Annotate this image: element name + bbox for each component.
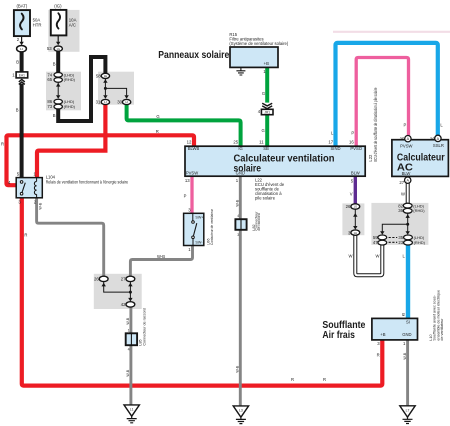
connector ovals 82 36 <box>398 203 425 213</box>
svg-text:W-B: W-B <box>403 352 407 360</box>
svg-text:W: W <box>348 254 352 259</box>
svg-text:65: 65 <box>47 77 52 82</box>
svg-text:1H: 1H <box>354 231 358 235</box>
connector ovals 86 73 <box>47 99 75 109</box>
svg-text:L1: L1 <box>130 408 134 412</box>
red wire left vertical down to relay pin 4 <box>7 136 17 185</box>
gray panel behind connectors 74/65/86/73 <box>46 72 81 111</box>
svg-text:11: 11 <box>259 140 264 145</box>
svg-text:13: 13 <box>185 178 190 183</box>
junction tree below connector 58 <box>103 79 129 99</box>
svg-text:1E: 1E <box>104 74 108 78</box>
svg-text:(Système de ventilateur solair: (Système de ventilateur solaire) <box>229 41 288 46</box>
svg-text:Connecteur de raccord: Connecteur de raccord <box>142 308 146 346</box>
svg-text:R: R <box>24 233 27 238</box>
connecteur de raccord L82 <box>235 211 261 237</box>
arrow into connector 53 <box>56 42 60 46</box>
svg-text:1G: 1G <box>56 47 60 51</box>
gray wire W-B soufflante GND down to ground <box>406 340 409 406</box>
svg-text:4: 4 <box>237 214 239 218</box>
connector oval 58 <box>96 73 110 78</box>
svg-text:W: W <box>375 254 379 259</box>
gray panel behind connectors 26/27/42 <box>94 274 142 309</box>
wire black connector 53 to connectors 74/65 <box>56 51 60 73</box>
svg-text:+B: +B <box>264 61 269 66</box>
svg-text:SB: SB <box>263 146 269 151</box>
red wire relay pin 3 to bottom bus to soufflante +B <box>22 198 383 386</box>
connector ovals 74 65 <box>47 72 75 82</box>
svg-text:B: B <box>53 113 56 118</box>
svg-text:27: 27 <box>121 277 126 282</box>
svg-text:26: 26 <box>346 204 351 209</box>
connector oval 53 <box>47 46 63 51</box>
svg-text:4: 4 <box>128 348 130 352</box>
svg-text:de raccord: de raccord <box>257 213 261 230</box>
wire black from fuse BAT down to relay <box>21 31 23 42</box>
svg-text:12: 12 <box>187 140 192 145</box>
green wire connector 30 to pin 25 <box>127 104 241 146</box>
svg-text:53: 53 <box>47 46 52 51</box>
ground right <box>400 406 415 424</box>
svg-text:W-B: W-B <box>235 199 239 207</box>
label L22 block under ECU GND <box>255 178 285 201</box>
faint page edge line top right <box>333 31 450 33</box>
svg-text:R: R <box>291 377 294 382</box>
gray panel behind connectors 82/36/59/47/35/23 <box>371 203 428 245</box>
connector EA1 with chevrons <box>12 72 27 85</box>
svg-text:26: 26 <box>94 277 99 282</box>
svg-text:1: 1 <box>128 329 130 333</box>
green wire JR1 to pin 11 <box>265 114 269 146</box>
connecteur de raccord L85 <box>126 308 147 352</box>
svg-text:31: 31 <box>96 100 101 105</box>
red wire horizontal feed line to pin 12 <box>7 135 195 146</box>
svg-text:PVSO: PVSO <box>350 146 362 151</box>
svg-text:G: G <box>156 114 159 119</box>
white wire loop connector 3 to connectors 59/47 <box>355 235 382 275</box>
connector oval 1 below fuse BAT <box>17 46 27 52</box>
svg-text:W-B: W-B <box>157 254 165 259</box>
calculateur ventilation solaire ECU box <box>185 146 365 176</box>
connector pair link 65 to 86 <box>56 82 60 98</box>
svg-text:ECU d'évent de soufflante de c: ECU d'évent de soufflante de climatisati… <box>373 87 378 161</box>
svg-text:42: 42 <box>121 302 126 307</box>
calculateur AC box <box>392 140 449 177</box>
pink wire loop pin 16 to calculateur AC pin 25 <box>356 58 408 147</box>
svg-text:R: R <box>377 352 380 357</box>
cyan wire connectors 35/23 down to soufflante SI <box>406 245 410 319</box>
svg-text:PVSW: PVSW <box>186 171 198 176</box>
svg-text:de ventilateur: de ventilateur <box>440 318 444 341</box>
svg-text:SIND: SIND <box>330 146 340 151</box>
wire black from fuse IG down to connector 53 <box>57 29 59 42</box>
svg-text:B: B <box>16 60 19 65</box>
svg-text:SI: SI <box>406 320 410 325</box>
svg-text:V: V <box>350 191 353 196</box>
white wire calculateur AC pin 27 down to connectors 82/36 <box>406 183 410 203</box>
junction tree below connectors 26/27 <box>102 282 133 302</box>
connector ovals 59 47 <box>373 235 387 245</box>
svg-text:GND: GND <box>236 171 245 176</box>
ground left <box>124 405 139 423</box>
svg-text:W-B: W-B <box>235 365 239 373</box>
pin numbers bottom of ECU <box>185 178 354 183</box>
svg-text:W-B: W-B <box>39 202 43 210</box>
svg-text:W-B: W-B <box>126 317 130 325</box>
pin numbers top of ECU <box>187 140 355 145</box>
connector pair link 26 to 3 <box>353 210 357 230</box>
svg-text:1J: 1J <box>20 47 24 51</box>
wire black connectors 86/73 down right up right to connector 58 <box>58 57 105 121</box>
svg-text:HTR: HTR <box>33 23 42 28</box>
svg-text:SSLR: SSLR <box>433 143 444 148</box>
svg-text:G: G <box>262 128 265 133</box>
svg-text:BLWB: BLWB <box>188 146 200 151</box>
pin circles calculateur AC <box>399 135 441 185</box>
svg-text:16: 16 <box>349 140 354 145</box>
connector oval 3 <box>348 230 360 235</box>
fuse IG 10A A/C <box>51 4 77 36</box>
svg-text:Contacteur de ventilateur: Contacteur de ventilateur <box>209 208 214 245</box>
label L10 vertical right of soufflante <box>429 290 444 341</box>
gray wire W-B relay pin 2 to connector 26 <box>37 198 104 276</box>
green wire R15 pin 1 down to chevron JR1 <box>265 68 269 103</box>
svg-text:A/C: A/C <box>69 23 76 28</box>
connector oval 42 <box>121 302 135 308</box>
pink wire pin 13 down to contacteur L66 <box>190 176 193 213</box>
svg-text:17: 17 <box>328 140 333 145</box>
connector JR1 with chevrons <box>258 103 273 115</box>
svg-text:pile solaire: pile solaire <box>255 196 276 201</box>
svg-text:W: W <box>401 191 405 196</box>
svg-text:3: 3 <box>237 233 239 237</box>
svg-text:Relais de ventilation fonction: Relais de ventilation fonctionnant à l'é… <box>46 179 129 184</box>
svg-text:IG: IG <box>238 146 242 151</box>
svg-text:BLW: BLW <box>402 171 411 176</box>
svg-text:P: P <box>404 122 407 127</box>
svg-text:G: G <box>262 91 265 96</box>
cyan wire loop pin 17 to calculateur AC pin 26 <box>336 43 438 146</box>
svg-text:B: B <box>53 62 56 67</box>
relais L104 <box>8 171 129 204</box>
svg-text:25: 25 <box>233 140 238 145</box>
gray wire W-B connector 42 down through L85 to ground <box>129 307 132 405</box>
svg-text:PVSW: PVSW <box>400 143 412 148</box>
svg-text:R: R <box>323 377 326 382</box>
svg-text:P: P <box>351 130 354 135</box>
soufflante title <box>322 320 365 341</box>
gray wire W-B contacteur L66 to connector 27 <box>130 245 192 276</box>
connector oval 31 <box>96 99 110 104</box>
svg-text:B: B <box>16 108 19 113</box>
label L22 vertical right of ECU <box>368 87 378 161</box>
dashes between connector columns <box>389 238 398 243</box>
junction tree below connectors 82/36 <box>380 213 410 234</box>
svg-text:SW-: SW- <box>195 241 203 245</box>
svg-text:L7: L7 <box>406 409 410 413</box>
svg-text:W-B: W-B <box>126 369 130 377</box>
svg-text:1G: 1G <box>353 205 357 209</box>
svg-text:58: 58 <box>96 73 101 78</box>
fuse BAT 50A HTR <box>14 4 42 43</box>
svg-text:Panneaux solaire: Panneaux solaire <box>158 50 229 61</box>
connector ovals 26 27 bottom left <box>94 276 135 281</box>
svg-text:BLW: BLW <box>351 171 360 176</box>
arrow into connector of fuse BAT <box>19 42 23 46</box>
gray wire W-B main GND down to ground <box>239 176 242 406</box>
contacteur de ventilateur L66 <box>184 207 215 252</box>
svg-text:EA1: EA1 <box>19 73 25 77</box>
svg-text:(RHD): (RHD) <box>414 240 426 245</box>
svg-text:GND: GND <box>402 332 411 337</box>
svg-text:L3: L3 <box>239 409 243 413</box>
svg-text:(RHD): (RHD) <box>413 208 425 213</box>
ground middle <box>233 406 248 424</box>
svg-text:P: P <box>184 194 187 199</box>
gray panel behind connectors 26/3 <box>342 203 364 235</box>
svg-text:(BAT): (BAT) <box>16 4 27 9</box>
gray panel behind connectors 58/31/30 <box>98 72 134 105</box>
svg-text:Air frais: Air frais <box>322 330 355 341</box>
connector oval 26 purple column <box>346 204 360 209</box>
svg-text:SW+: SW+ <box>195 216 203 220</box>
connector ovals 35 23 <box>398 235 425 245</box>
gray panel behind IG fuse <box>48 10 79 52</box>
svg-text:R: R <box>1 142 4 147</box>
svg-text:(RHD): (RHD) <box>64 104 76 109</box>
filtre antiparasites R15 <box>229 32 288 75</box>
svg-text:73: 73 <box>47 104 52 109</box>
purple wire pin 5 BLW down to connector 26 <box>354 176 357 204</box>
red wire from connector 31 down to link line <box>103 105 107 151</box>
svg-text:(IG): (IG) <box>54 4 62 9</box>
svg-text:JR1: JR1 <box>264 111 270 115</box>
soufflante air frais box <box>372 312 418 346</box>
svg-text:(RHD): (RHD) <box>64 77 76 82</box>
red wire link line to relay pin 1 <box>37 151 108 178</box>
svg-text:+B: +B <box>380 332 385 337</box>
connector oval 30 <box>117 99 131 104</box>
svg-text:R: R <box>156 129 159 134</box>
